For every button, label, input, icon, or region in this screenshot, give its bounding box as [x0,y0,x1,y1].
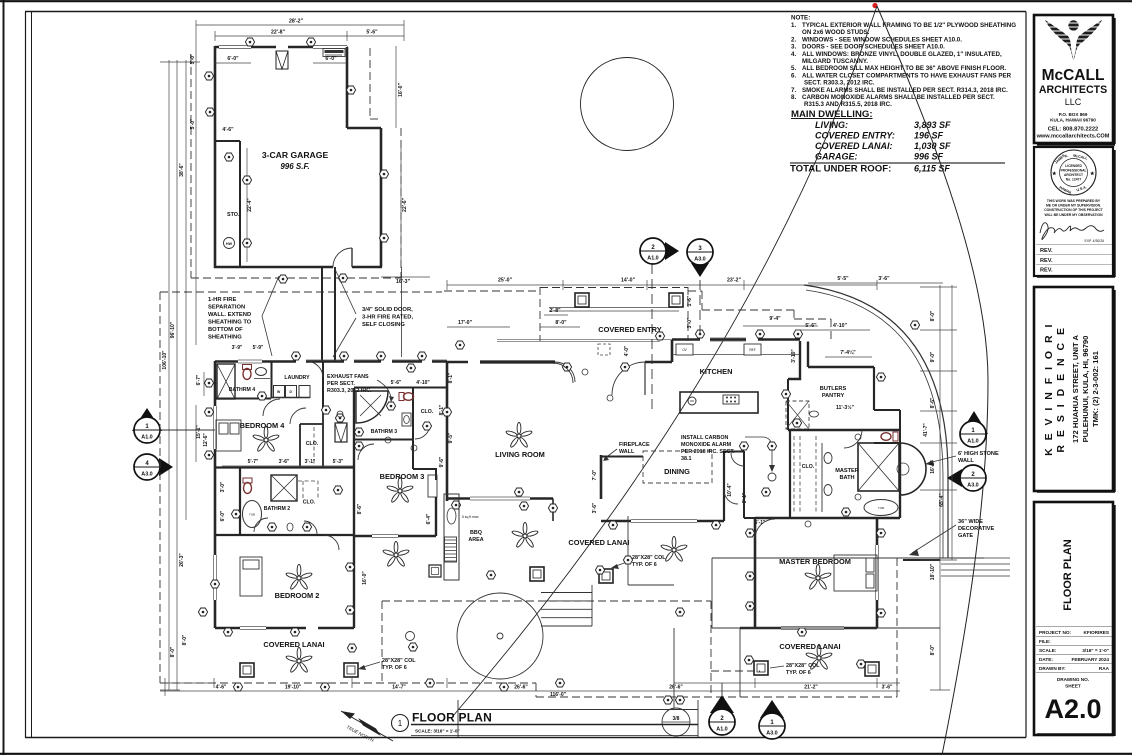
house west wall [214,361,217,628]
svg-text:14'-0": 14'-0" [621,278,636,284]
bottom dim chain [160,678,900,696]
entry porch columns [575,293,589,307]
bedroom4 south wall [215,466,354,468]
exhaust fan note [327,374,372,394]
fan lanai center-left [511,522,538,548]
svg-text:GARAGE:: GARAGE: [815,152,858,162]
garage south wall [214,266,382,269]
svg-text:26'-3": 26'-3" [179,553,185,567]
svg-text:4'-10": 4'-10" [833,323,848,329]
bathrm3 south wall [354,439,413,441]
svg-text:65'-4": 65'-4" [939,493,945,507]
svg-text:A1.0: A1.0 [967,439,978,445]
laundry door arc [306,361,323,378]
svg-text:EXHAUST FANS: EXHAUST FANS [327,374,369,380]
section marker 1/A1.0 right [960,411,988,447]
main roof eave dashed west [160,291,897,697]
section marker 4/A3.0 left [134,454,173,480]
svg-text:R E S I D E N C E: R E S I D E N C E [1055,325,1067,452]
svg-text:DRAWING NO.: DRAWING NO. [1057,677,1089,682]
bathrm2 tub oval [243,501,262,528]
svg-text:DATE:: DATE: [1039,657,1053,662]
water heater [224,238,235,249]
garage keynote hexes [245,38,254,46]
bathrm4 sink [256,368,267,376]
true north arrow [341,711,393,743]
pantry north jog [808,342,874,368]
svg-text:96'-10": 96'-10" [170,321,176,338]
svg-text:12'-6": 12'-6" [203,433,209,447]
deck steps by pool [541,585,592,626]
svg-text:COVERED LANAI: COVERED LANAI [263,640,324,649]
svg-text:3'-6": 3'-6" [882,685,893,691]
detail circle bottom [662,708,690,736]
svg-text:22'-4": 22'-4" [247,198,253,212]
svg-text:8'-1": 8'-1" [448,372,454,383]
lanai columns left [240,663,254,677]
section marker 3/A3.0 top [687,239,713,277]
svg-text:996 S.F.: 996 S.F. [280,162,309,171]
closet rod dashed [313,427,315,464]
svg-text:FEBRUARY 2024: FEBRUARY 2024 [1071,657,1109,662]
svg-text:6,115 SF: 6,115 SF [914,164,950,174]
kitchen east wall [788,341,800,379]
svg-text:6.: 6. [791,72,796,79]
hall to master: walls [744,483,755,518]
hall closet door arc [290,408,306,424]
svg-text:CARBON MONOXIDE ALARMS SHALL B: CARBON MONOXIDE ALARMS SHALL BE INSTALLE… [802,94,995,101]
garage door schedule tag [323,49,345,57]
section marker 1/A1.0 left [132,408,215,443]
small oval fixture [287,523,293,531]
drawing border left inner [31,12,33,738]
project name box [1034,287,1113,491]
svg-text:5'-0": 5'-0" [190,118,196,129]
logo hatch lines [1044,23,1103,55]
north wall kitchen/entry [447,340,800,363]
svg-text:16'-0": 16'-0" [362,571,368,585]
svg-text:5.: 5. [791,65,796,72]
svg-text:LICENSED: LICENSED [1065,164,1082,168]
svg-text:DINING: DINING [664,467,690,476]
fan lanai center-right [660,536,687,562]
breezeway walls [322,267,335,361]
garage roof eave dashed [191,48,401,278]
sheet info box [1034,502,1113,735]
svg-text:6'-7": 6'-7" [196,374,202,385]
svg-text:A1.0: A1.0 [647,256,658,262]
svg-text:CONSTRUCTION OF THIS PROJECT: CONSTRUCTION OF THIS PROJECT [1044,208,1104,212]
svg-text:DECORATIVE: DECORATIVE [958,526,995,532]
master shower [858,443,899,491]
stamp box [1034,147,1113,276]
svg-text:P.O. BOX 869: P.O. BOX 869 [1059,112,1088,117]
svg-text:5'-5": 5'-5" [837,276,849,282]
svg-text:28"X28" COL: 28"X28" COL [632,555,666,561]
master bedroom west wall [754,518,757,628]
svg-text:DRAWN BY:: DRAWN BY: [1039,666,1066,671]
property line curve right [877,6,988,755]
svg-text:PANTRY: PANTRY [822,393,845,399]
master bath east wall [899,443,901,518]
entry double door arcs [555,362,575,382]
svg-text:A3.0: A3.0 [141,472,152,478]
svg-text:CLO.: CLO. [306,441,319,447]
svg-text:COVERED LANAI:: COVERED LANAI: [815,141,893,151]
svg-text:3-HR FIRE RATED,: 3-HR FIRE RATED, [362,315,413,321]
red revision dot [872,3,877,8]
master bed [834,555,877,591]
svg-text:A3.0: A3.0 [766,731,777,737]
garage west wall [214,46,217,268]
svg-text:PER SECT.: PER SECT. [327,381,355,387]
svg-text:ARCHITECT: ARCHITECT [1064,173,1083,177]
garage door opening headers [219,46,347,49]
svg-text:172 HUAHUA STREET, UNIT A: 172 HUAHUA STREET, UNIT A [1071,335,1080,443]
storage partition east [239,141,241,267]
living west wall [446,361,449,501]
svg-text:28"X28" COL: 28"X28" COL [786,663,820,669]
keynote circle entry [582,369,588,375]
garage walls [214,46,382,268]
svg-text:28'-2": 28'-2" [289,19,304,25]
svg-text:R315.3 AND R315.5, 2018 IRC.: R315.3 AND R315.5, 2018 IRC. [804,101,892,108]
bathrm2 door arcs [254,518,268,532]
svg-text:22'-6": 22'-6" [402,197,408,212]
svg-text:PULEHUNUI, KULA, HI, 96790: PULEHUNUI, KULA, HI, 96790 [1081,336,1090,443]
kitchen island [680,392,758,413]
BBQ grill hatched [445,537,457,562]
ceiling fan bedroom 4 [252,426,279,452]
page left edge [3,0,5,755]
svg-text:SHEATHING: SHEATHING [208,335,242,341]
bathrm4 south wall [215,398,271,400]
right dim chain [920,285,957,690]
section marker 2/A1.0 top [640,238,700,409]
svg-text:COVERED LANAI: COVERED LANAI [568,538,629,547]
svg-text:1-HR FIRE: 1-HR FIRE [208,297,236,303]
pantry west wall [787,379,789,430]
svg-text:A3.0: A3.0 [694,257,705,263]
master door arc [755,519,775,539]
hall arcs to dining [724,490,738,504]
entry sidelight dashed [598,344,610,355]
attic access hatch [335,423,347,442]
bathrm2 shower [271,475,297,501]
svg-text:8'-0": 8'-0" [555,320,567,326]
master closet dashed [794,436,816,512]
hall inner walls [353,388,355,628]
bathrm2 closet dashed [298,481,318,498]
exhaust note leader [377,380,391,400]
master bath west wall [789,430,791,518]
master bath north wall [788,429,900,431]
BBQ column square [429,565,441,577]
lanai columns mid [530,567,544,581]
svg-text:16'-3": 16'-3" [396,279,411,285]
fire note leaders [262,276,279,356]
svg-text:7'-0": 7'-0" [592,469,598,480]
window west bedroom4 [214,406,217,449]
svg-text:6'-0": 6'-0" [220,510,226,521]
svg-text:A1.0: A1.0 [141,435,152,441]
svg-text:FLOOR PLAN: FLOOR PLAN [412,711,492,725]
svg-text:41'-7": 41'-7" [923,423,929,437]
svg-text:CEL: 808.870.2222: CEL: 808.870.2222 [1048,127,1099,133]
garage man door arc [333,248,352,267]
section marker 1/A3.0 bottom [759,700,785,739]
storage partition north [215,140,240,142]
island sink [688,397,696,405]
master bedroom east wall [876,518,879,628]
svg-text:5'-0": 5'-0" [190,53,196,64]
svg-text:TYP. OF 6: TYP. OF 6 [786,670,811,676]
svg-text:No. 12477: No. 12477 [1066,178,1082,182]
svg-text:FLOOR PLAN: FLOOR PLAN [1062,539,1074,611]
svg-text:WILL BE UNDER MY OBSERVATION: WILL BE UNDER MY OBSERVATION [1044,213,1103,217]
bathrm3 toilet [399,393,414,401]
svg-text:BEDROOM 2: BEDROOM 2 [275,591,320,600]
shower head circle [897,463,909,475]
svg-text:36" WIDE: 36" WIDE [958,519,983,525]
svg-text:4'-6": 4'-6" [222,127,234,133]
svg-text:23'-2": 23'-2" [727,278,742,284]
svg-text:SEPARATION: SEPARATION [208,305,245,311]
fire separation note [208,297,252,341]
svg-text:AREA: AREA [468,537,483,543]
svg-text:KFIORIRES: KFIORIRES [1083,630,1109,635]
svg-text:EXP. 4/30/26: EXP. 4/30/26 [1084,239,1104,243]
svg-text:★: ★ [1090,171,1095,177]
svg-text:106'-10": 106'-10" [162,350,168,370]
kitchen ref box [744,344,761,355]
svg-text:9'-5": 9'-5" [448,432,454,443]
south hexes [233,683,242,691]
svg-text:26'-6": 26'-6" [669,685,683,691]
bathrm3 vanity [402,413,411,426]
bedroom3 south eave dashed [382,601,760,697]
svg-text:A3.0: A3.0 [967,483,978,489]
svg-text:116'-0": 116'-0" [550,692,567,698]
svg-text:14'-7": 14'-7" [392,685,406,691]
svg-text:.5 sq ft max: .5 sq ft max [461,515,479,519]
svg-text:BATHRM 3: BATHRM 3 [371,429,398,435]
bedroom2 walls south [215,627,354,630]
svg-text:TUB: TUB [249,513,255,517]
svg-text:4'-0": 4'-0" [624,345,630,356]
svg-text:WALL: WALL [958,458,974,464]
garage east jog wall [347,127,381,130]
svg-text:FIREPLACE: FIREPLACE [619,442,650,448]
svg-text:15'-1": 15'-1" [196,425,202,439]
svg-text:SCALE: 3/16" = 1'-0": SCALE: 3/16" = 1'-0" [415,729,460,734]
vanity counter [821,443,823,512]
svg-text:3'-10": 3'-10" [791,349,797,363]
fan lanai right [805,644,832,670]
dining rug dashed [643,451,712,483]
svg-text:TUB: TUB [878,506,884,510]
detail reference circle (blank) [581,58,674,151]
svg-text:1: 1 [398,719,403,728]
svg-text:3'-6": 3'-6" [279,459,290,465]
hall west wall [322,361,324,409]
svg-text:BBQ: BBQ [470,530,482,536]
north wall left wing [215,360,447,363]
svg-text:MAIN DWELLING:: MAIN DWELLING: [791,109,873,120]
svg-text:8'-0": 8'-0" [930,310,936,321]
carbon note leader [745,437,772,470]
bedroom3 NE step wall [413,469,436,480]
svg-text:SMOKE ALARMS SHALL BE INSTALLE: SMOKE ALARMS SHALL BE INSTALLED PER SECT… [802,87,1008,94]
bathrm3 shower quarter [356,391,388,423]
entry porch slab lines [549,308,679,312]
svg-text:CLO.: CLO. [802,464,815,470]
svg-text:REV.: REV. [1040,258,1053,264]
svg-text:FILE:: FILE: [1039,639,1051,644]
small keynote circles [337,411,343,417]
architect stamp seal [1051,150,1096,195]
garage east wall [380,128,383,267]
svg-text:BATHRM 2: BATHRM 2 [264,506,291,512]
garage right dims [381,46,430,277]
svg-text:SHEET: SHEET [1065,684,1081,689]
svg-text:3-CAR GARAGE: 3-CAR GARAGE [262,150,329,160]
solid door leaders [333,267,356,357]
svg-text:3/16" = 1'-0": 3/16" = 1'-0" [1082,648,1109,653]
bedroom4 closet walls [300,409,323,467]
carbon monoxide note [681,435,735,462]
living south wall [447,497,553,499]
svg-text:RAA: RAA [1099,666,1110,671]
svg-text:REF: REF [749,348,755,352]
svg-text:2'-8": 2'-8" [549,308,561,314]
pantry east wall [873,367,875,410]
svg-text:7.: 7. [791,87,796,94]
svg-text:LLC: LLC [1065,97,1082,107]
bathrm2 walls [215,468,354,536]
svg-text:SHEATHING TO: SHEATHING TO [208,320,252,326]
svg-text:3/4" SOLID DOOR,: 3/4" SOLID DOOR, [362,307,413,313]
bathrm4 toilet [243,365,252,380]
ceiling fan master [804,564,831,590]
drawing border top [25,11,1026,13]
ceiling fan bedroom 3 [386,477,413,503]
long leader line to plan [453,6,877,716]
laundry washer/dryer [274,386,311,398]
svg-text:26'-6": 26'-6" [514,685,528,691]
svg-text:5'-6": 5'-6" [366,30,378,36]
kitchen hall arcs [553,363,573,383]
svg-text:5'-6": 5'-6" [391,380,402,386]
fan lanai left [285,647,312,673]
area tabulation [790,109,1005,175]
info table [1036,627,1112,673]
svg-text:6'-0": 6'-0" [227,56,239,62]
svg-text:3'-6": 3'-6" [592,502,598,513]
svg-text:38'-6": 38'-6" [179,163,185,177]
entry eave dashed [540,287,688,341]
svg-text:INSTALL CARBON: INSTALL CARBON [681,435,729,441]
svg-text:REV.: REV. [1040,268,1053,274]
svg-text:HW: HW [226,242,233,246]
hallway south wall to bathrm3 [354,387,446,389]
svg-text:5'-7": 5'-7" [248,459,259,465]
svg-text:ME OR UNDER MY SUPERVISION.: ME OR UNDER MY SUPERVISION. [1046,204,1101,208]
svg-text:16'-0": 16'-0" [930,460,936,474]
svg-text:A1.0: A1.0 [716,727,727,733]
BBQ counter outline [444,494,459,580]
svg-text:18'-10": 18'-10" [930,563,936,580]
svg-text:W: W [277,390,281,394]
svg-text:DOORS - SEE DOOR SCHEDULES SHE: DOORS - SEE DOOR SCHEDULES SHEET A10.0. [802,44,945,51]
bed bedroom2 [240,557,262,596]
svg-text:1.: 1. [791,22,796,29]
master bedroom south wall [740,627,877,630]
master tub [864,500,898,516]
svg-text:3/8: 3/8 [673,716,680,722]
bathrm2 toilet [243,478,252,494]
title area box lines [458,700,698,737]
svg-text:THIS WORK WAS PREPARED BY: THIS WORK WAS PREPARED BY [1047,199,1101,203]
svg-text:K E V I N F I O R I: K E V I N F I O R I [1043,322,1055,456]
stone wall arc [804,285,948,558]
deck steps right [941,558,1010,576]
svg-text:McCALL: McCALL [1042,67,1105,84]
pantry counter dashed box [786,401,809,429]
svg-text:8'-6": 8'-6" [357,503,363,514]
revision rows [1036,244,1112,246]
master bath door arc [844,430,862,448]
floor plan title [392,711,699,736]
kitchen counter line [672,354,800,356]
svg-text:SELF CLOSING: SELF CLOSING [362,322,405,328]
svg-text:6' HIGH STONE: 6' HIGH STONE [958,451,999,457]
bed bedroom4 [216,420,241,451]
drawing border bottom [25,737,1026,739]
kitchen wall oven box [676,344,693,355]
architect logo+address box [1034,15,1113,143]
section marker 2/A1.0 bottom [709,683,735,735]
svg-text:WALL: WALL [619,449,635,455]
svg-text:9'-4": 9'-4" [769,316,781,322]
deck edge lines [628,516,984,708]
bedroom3 window seat [428,475,437,497]
svg-text:3'-0": 3'-0" [220,481,226,492]
svg-text:5'-9": 5'-9" [253,345,264,351]
svg-text:8'-0": 8'-0" [182,634,188,645]
living SE pocket wall [552,499,554,522]
svg-text:MASTER: MASTER [835,468,859,474]
WC nook walls [874,410,900,443]
bedroom3 south wall [354,497,436,536]
svg-text:3'-0": 3'-0" [687,317,693,328]
bathrm3 east wall [412,388,414,469]
right wing hexes [781,390,790,398]
dining south wall [601,520,724,522]
svg-text:5'-6": 5'-6" [805,323,817,329]
entry step lines [497,340,672,342]
keynote circle lanai [406,632,415,641]
svg-text:PROJECT NO:: PROJECT NO: [1039,630,1071,635]
svg-text:16'-0": 16'-0" [398,82,404,97]
svg-text:4'-10": 4'-10" [416,380,430,386]
svg-text:3'-6": 3'-6" [878,276,890,282]
storage dim 22'-4" [246,148,248,262]
svg-text:REV.: REV. [1040,248,1053,254]
svg-text:TYP. OF 6: TYP. OF 6 [382,665,407,671]
svg-text:4.: 4. [791,51,796,58]
svg-text:SECT. R303.3, 2012 IRC.: SECT. R303.3, 2012 IRC. [804,80,875,87]
